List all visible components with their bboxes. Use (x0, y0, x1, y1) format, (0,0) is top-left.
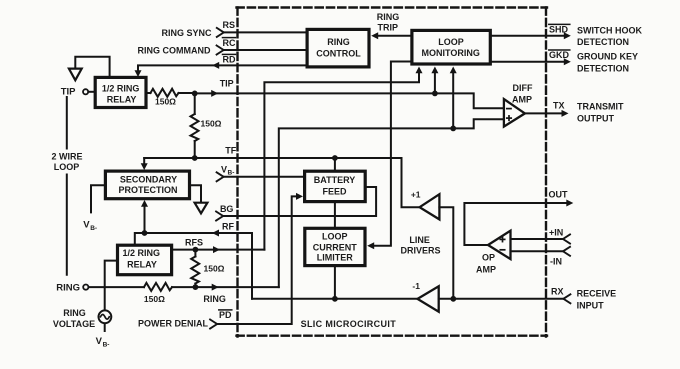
svg-text:SECONDARY: SECONDARY (120, 174, 177, 184)
arrow TIP line flow right (211, 90, 218, 97)
label RING TRIP (377, 12, 400, 32)
svg-text:BATTERY: BATTERY (314, 175, 356, 185)
svg-text:SHD: SHD (549, 25, 569, 35)
svg-text:OP: OP (482, 253, 495, 263)
wire OP AMP output to OUT (464, 203, 568, 245)
relay K1 box 1/2 RING RELAY (top) (95, 77, 146, 107)
svg-text:TIP: TIP (220, 78, 234, 88)
svg-text:SLIC MICROCIRCUIT: SLIC MICROCIRCUIT (301, 319, 397, 329)
label SWITCH HOOK DETECTION (577, 25, 642, 47)
secondary protection U3 box (105, 171, 189, 199)
wire relay K2 left to ring voltage source (105, 261, 118, 311)
wire +1 driver input from RX (439, 207, 453, 299)
node junction dot RF / secondary protection (142, 230, 148, 236)
svg-text:RF: RF (222, 222, 234, 232)
svg-text:RING: RING (203, 294, 226, 304)
arrow RD flow left (212, 62, 219, 69)
svg-text:INPUT: INPUT (577, 300, 605, 310)
arrow OUT output (566, 200, 573, 207)
node junction dot TF/R2 (192, 155, 198, 161)
svg-text:LIMITER: LIMITER (317, 252, 353, 262)
svg-text:GKD: GKD (549, 50, 570, 60)
node junction dot RF / loop current limiter (332, 296, 338, 302)
svg-text:LINE: LINE (409, 235, 430, 245)
svg-text:TX: TX (553, 100, 565, 110)
wire RS input line (224, 31, 308, 33)
svg-text:FEED: FEED (322, 187, 347, 197)
svg-text:150Ω: 150Ω (155, 97, 176, 107)
label LINE DRIVERS (400, 235, 440, 255)
arrow TIP sense into loop monitoring (431, 67, 438, 74)
svg-text:RING: RING (327, 37, 350, 47)
svg-text:RING: RING (56, 282, 80, 293)
arrow chevron BG input (216, 212, 223, 221)
wire VB- input to battery feed (223, 176, 304, 178)
wire RING sense line to diff amp plus input (279, 119, 503, 287)
svg-text:RECEIVE: RECEIVE (577, 288, 617, 298)
wire RING line with resistor R4 (89, 283, 279, 291)
svg-text:PD: PD (219, 310, 232, 320)
svg-text:SWITCH HOOK: SWITCH HOOK (577, 25, 642, 35)
ground (secondary protection) (195, 203, 208, 214)
svg-text:DRIVERS: DRIVERS (400, 245, 440, 255)
svg-text:TF: TF (225, 145, 236, 155)
node junction dot RX / line drivers (450, 296, 456, 302)
node junction dot RFS/R3 (193, 247, 199, 253)
svg-text:TIP: TIP (61, 87, 76, 98)
op-amp U6 OP AMP (488, 231, 511, 259)
wire TF line (144, 158, 418, 207)
svg-text:1/2 RING: 1/2 RING (123, 248, 161, 258)
wire GKD output (491, 61, 567, 63)
label RECEIVE INPUT (577, 288, 617, 310)
label 2 WIRE LOOP (51, 151, 82, 171)
svg-text:V: V (96, 336, 103, 347)
arrow chevron VB- input (217, 172, 224, 181)
arrow GKD output (564, 58, 571, 65)
wire RF to secondary protection riser (144, 206, 146, 233)
svg-text:RING SYNC: RING SYNC (161, 28, 212, 38)
loop monitoring U2 box (412, 30, 490, 64)
arrow into loop current limiter (367, 242, 374, 249)
svg-text:-IN: -IN (550, 256, 562, 266)
wire TIP circle to relay K1 (88, 91, 95, 93)
svg-text:OUT: OUT (549, 189, 569, 199)
arrow chevron PD input (210, 320, 217, 329)
arrow chevron RX input (563, 294, 570, 303)
wire TIP line into chip to diff amp minus input (195, 93, 503, 108)
svg-text:RC: RC (223, 38, 236, 48)
svg-text:BG: BG (220, 204, 234, 214)
arrow RING flow right (212, 284, 219, 291)
label GROUND KEY DETECTION (577, 52, 638, 74)
wire TIP sense into loop monitoring (434, 72, 436, 94)
relay K2 box 1/2 RING RELAY (bottom) (118, 245, 172, 275)
wire secondary protection VB- stub (91, 185, 106, 212)
label OP AMP (476, 253, 496, 275)
arrow SHD output (564, 32, 571, 39)
wire secondary protection to ground (190, 185, 201, 202)
svg-text:150Ω: 150Ω (201, 118, 222, 128)
svg-text:RELAY: RELAY (127, 259, 157, 269)
wire RING sense into loop monitoring (452, 72, 454, 129)
arrow TX output (562, 110, 569, 117)
wire loop current limiter bottom riser (334, 267, 336, 299)
arrow chevron RS input (217, 28, 224, 37)
svg-text:VOLTAGE: VOLTAGE (53, 319, 95, 329)
wire RFS line from relay K2 (172, 249, 265, 251)
op-amp A2 line driver -1 (412, 281, 438, 312)
svg-text:GROUND KEY: GROUND KEY (577, 52, 638, 62)
wire RF line from -1 driver to relay K2 and protection (135, 233, 252, 299)
svg-text:AMP: AMP (512, 94, 532, 104)
pin PD (overline) (219, 310, 232, 320)
wire +IN input line (511, 238, 564, 240)
arrow RF flow left (212, 230, 219, 237)
resistor R2 150ohm (vertical TIP-TF) (191, 93, 199, 158)
loop current limiter U5 box (305, 228, 365, 265)
wire BG line looping into battery feed right side (223, 187, 376, 216)
pin VB- (221, 164, 234, 176)
svg-text:B-: B- (90, 225, 97, 232)
battery feed U4 box (305, 171, 366, 201)
svg-text:CURRENT: CURRENT (313, 242, 358, 252)
svg-text:2 WIRE: 2 WIRE (51, 151, 82, 161)
svg-text:150Ω: 150Ω (204, 263, 225, 273)
wire RD line to relay K1 (138, 65, 308, 70)
svg-text:RING COMMAND: RING COMMAND (138, 45, 211, 55)
label RING VOLTAGE (53, 308, 95, 329)
wire battery feed bottom to loop current limiter (334, 203, 336, 229)
arrow RF into secondary protection bottom (141, 200, 148, 207)
svg-text:-1: -1 (412, 281, 420, 291)
svg-text:RS: RS (223, 20, 236, 30)
svg-text:1/2 RING: 1/2 RING (102, 83, 140, 93)
resistor R3 150ohm (vertical RFS-RING) (191, 250, 199, 288)
svg-text:AMP: AMP (476, 265, 496, 275)
svg-text:DETECTION: DETECTION (577, 37, 629, 47)
svg-text:V: V (221, 164, 227, 174)
node junction dot TF/battery feed (332, 155, 338, 161)
svg-text:TRIP: TRIP (378, 23, 399, 33)
svg-text:+1: +1 (411, 190, 421, 200)
svg-text:TRANSMIT: TRANSMIT (577, 102, 624, 112)
wire loop monitoring to loop current limiter (372, 62, 412, 246)
wire PD line up to battery feed input (217, 196, 298, 324)
arrow RFS flow right (213, 246, 220, 253)
label TRANSMIT OUTPUT (577, 102, 624, 124)
pin GKD (overline) (549, 50, 570, 60)
node junction dot TIP sense to loop monitoring (432, 91, 438, 97)
arrow RING sense into loop monitoring (450, 67, 457, 74)
arrow chevron -IN input (563, 247, 570, 256)
arrow RING TRIP flow left (371, 32, 378, 39)
svg-text:B-: B- (228, 170, 235, 177)
node TIP terminal circle (83, 89, 88, 94)
arrow RD into relay K1 top (135, 70, 142, 77)
svg-text:RX: RX (551, 286, 564, 296)
node junction dot RING sense / loop monitoring (450, 125, 456, 131)
svg-text:RFS: RFS (185, 238, 203, 248)
svg-text:RELAY: RELAY (107, 95, 137, 105)
svg-text:150Ω: 150Ω (144, 294, 165, 304)
svg-text:RING: RING (377, 12, 400, 22)
svg-text:RING: RING (63, 308, 86, 318)
node RING terminal circle (83, 285, 88, 290)
svg-text:DIFF: DIFF (513, 83, 533, 93)
source V1 ring voltage AC (99, 310, 112, 331)
label DIFF AMP (512, 83, 533, 104)
svg-text:MONITORING: MONITORING (422, 48, 480, 58)
pin SHD (overline) (549, 24, 570, 34)
svg-text:PROTECTION: PROTECTION (118, 185, 177, 195)
wire -1 driver output line (252, 298, 418, 300)
pin RD (overline) (223, 54, 236, 64)
op-amp U7 DIFF AMP (504, 99, 525, 127)
label VB- (secondary protection) (83, 219, 97, 231)
SLIC microcircuit dashed boundary (237, 8, 548, 337)
ring control U1 box (307, 29, 369, 67)
svg-text:DETECTION: DETECTION (577, 63, 629, 73)
svg-text:OUTPUT: OUTPUT (577, 113, 615, 123)
resistor R1 150ohm (TIP feed) (147, 89, 194, 97)
svg-text:LOOP: LOOP (438, 37, 464, 47)
wire RING TRIP loop monitoring to ring control (375, 35, 412, 37)
svg-text:LOOP: LOOP (54, 162, 80, 172)
wire -IN input line (511, 250, 564, 252)
svg-text:LOOP: LOOP (322, 232, 348, 242)
wire battery feed top riser (334, 158, 336, 170)
arrow chevron RC input (217, 46, 224, 55)
wire RX receive input line (439, 298, 564, 300)
svg-text:+IN: +IN (549, 227, 563, 237)
svg-text:POWER DENIAL: POWER DENIAL (138, 319, 209, 329)
wire TX output from diff amp (525, 112, 564, 114)
label VB- (ring voltage source) (96, 336, 110, 348)
arrow PD into battery feed (296, 193, 303, 200)
wire RC input line (223, 49, 307, 51)
op-amp A1 line driver +1 (411, 190, 440, 220)
ground (top left, chassis of ring relay) (69, 57, 110, 80)
svg-text:V: V (83, 219, 90, 230)
pin RC (overline) (223, 38, 236, 48)
svg-text:RD: RD (223, 54, 236, 64)
node junction dot TIP/R2 (192, 91, 198, 97)
wire RFS sense riser to loop monitoring (264, 72, 419, 250)
arrow TF into secondary protection (141, 158, 148, 170)
arrow RFS sense into loop monitoring (416, 67, 423, 74)
arrow chevron +IN input (563, 235, 570, 244)
svg-text:B-: B- (103, 341, 110, 348)
wire SHD output (491, 35, 567, 37)
node junction dot RING/R3 (193, 284, 199, 290)
svg-text:CONTROL: CONTROL (316, 49, 361, 59)
wire 2 wire loop vertical (66, 97, 68, 275)
